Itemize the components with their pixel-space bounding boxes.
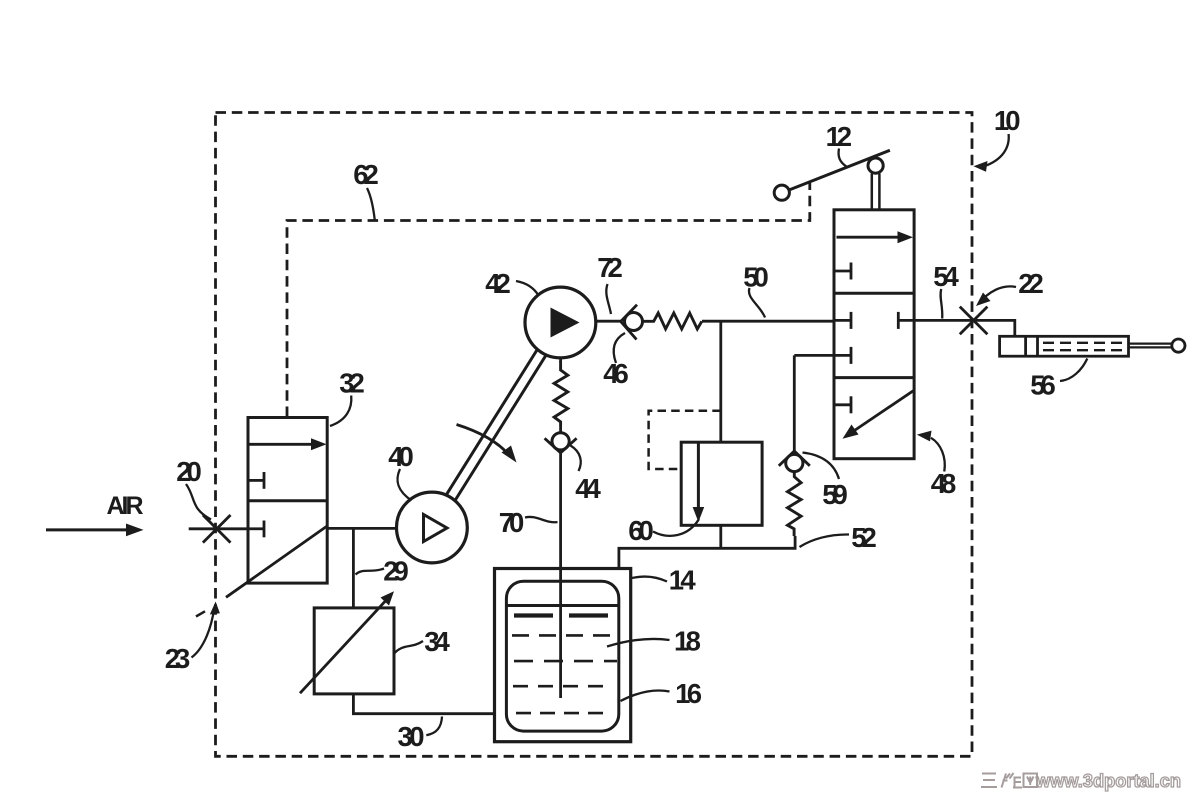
svg-text:4: 4: [680, 565, 696, 596]
leader squiggles: [186, 134, 1087, 735]
leader 30: [426, 717, 442, 736]
spring of 59: [788, 472, 802, 537]
pump 42: [525, 287, 596, 358]
wire: valve to X22 to cylinder drop: [914, 320, 1015, 336]
leader 12: [839, 149, 848, 168]
leader 18: [607, 639, 670, 647]
valve bottom section diagonal arrow: [843, 391, 914, 439]
valve body 50/54/48 (3-section spool valve): [834, 210, 914, 459]
svg-text:40: 40: [388, 441, 414, 472]
leader 60: [653, 519, 699, 536]
dashed pilot line 62: [287, 183, 810, 417]
leader 16: [621, 690, 670, 701]
watermark: [1035, 770, 1181, 791]
leader 70: [525, 517, 558, 522]
valve port stub mid-left main: [834, 312, 851, 329]
svg-text:62: 62: [353, 159, 379, 190]
svg-text:46: 46: [603, 358, 629, 389]
leader 20: [186, 484, 211, 520]
svg-text:52: 52: [851, 522, 877, 553]
spring 44 feed (vertical from pump): [554, 358, 568, 433]
dashed pilot to 60: [649, 411, 721, 469]
svg-text:8: 8: [686, 626, 701, 657]
leader 50: [749, 288, 765, 318]
wire: line 52: [619, 536, 795, 570]
restrictor box 34: [300, 591, 394, 694]
valve port stub bottom-left: [834, 396, 851, 413]
watermark CJK 三维网 (simplified strokes): [981, 773, 1037, 788]
cylinder 56: [1000, 336, 1185, 356]
svg-text:42: 42: [485, 268, 511, 299]
wire: branch 29 down to restrictor 34: [352, 528, 355, 608]
tank 14 outer: [495, 569, 631, 742]
reference numerals: [107, 105, 1056, 752]
leader 32: [330, 396, 351, 427]
leader 10: [984, 134, 1009, 166]
svg-text:2: 2: [837, 121, 852, 152]
leader 23: [192, 608, 215, 658]
leader 29: [356, 569, 385, 575]
leader 72: [606, 284, 611, 314]
svg-text:60: 60: [628, 515, 654, 546]
liquid dashes rows: [512, 635, 617, 713]
valve 32 port stub upper: [248, 472, 264, 489]
leader 62: [367, 188, 375, 220]
crossing symbol 22: [960, 307, 988, 335]
valve 32 diagonal (manual override 23): [226, 526, 327, 597]
svg-text:70: 70: [499, 507, 525, 538]
check valve 44: [545, 433, 577, 453]
svg-text:34: 34: [424, 626, 450, 657]
leader 52: [800, 534, 850, 547]
leader 48 arrowhead: [917, 431, 932, 442]
wire: junction down to regulator 60: [719, 321, 722, 442]
AIR inlet arrow: [46, 524, 144, 537]
svg-text:50: 50: [743, 262, 769, 293]
leader 44: [571, 446, 581, 472]
leader 59: [803, 453, 840, 480]
svg-text:22: 22: [1018, 268, 1044, 299]
leader 22: [979, 286, 1016, 303]
spring 72 (horizontal): [643, 313, 702, 329]
valve port stub top-left: [834, 263, 851, 280]
valve 32 body: [248, 418, 327, 584]
leader 40: [397, 469, 411, 501]
lever 12: [774, 150, 890, 210]
dash-dot tail 23: [196, 611, 205, 616]
check valve 46: [596, 305, 643, 340]
svg-text:6: 6: [687, 678, 702, 709]
wire: 34 down and right (line 30): [353, 694, 494, 714]
leader 42: [516, 281, 539, 296]
outer dashed enclosure 10: [216, 113, 973, 757]
leader 48: [931, 438, 945, 472]
svg-text:72: 72: [597, 252, 623, 283]
valve port stub mid-left lower: [834, 347, 851, 364]
tank inner vessel 16: [506, 581, 618, 731]
svg-text:44: 44: [575, 473, 601, 504]
leader 54: [941, 289, 943, 319]
wire: 60 down to line 52: [719, 525, 722, 548]
valve 32 port stub main: [248, 521, 264, 538]
regulator box 60: [681, 442, 762, 525]
leader 14: [632, 577, 667, 582]
svg-text:AIR: AIR: [107, 492, 144, 520]
leader 22 arrowhead: [976, 293, 991, 307]
crossing symbol 20: [203, 515, 231, 543]
leader 23 arrowhead: [210, 602, 220, 615]
wire: main line pump to valve: [702, 320, 834, 323]
valve 32 arrow: [250, 438, 327, 450]
motor 40: [397, 492, 468, 563]
svg-text:30: 30: [398, 721, 425, 752]
leader 10 arrowhead: [974, 161, 988, 172]
drive shaft 40-42: [446, 349, 547, 502]
wire: inlet to valve 32: [189, 527, 248, 530]
leader 46: [614, 333, 625, 363]
wire: dip tube 70: [559, 453, 562, 698]
svg-text:48: 48: [931, 468, 957, 499]
svg-text:20: 20: [176, 456, 202, 487]
svg-text:www.3dportal.cn: www.3dportal.cn: [1035, 770, 1181, 791]
svg-text:0: 0: [1005, 105, 1020, 136]
svg-text:29: 29: [383, 556, 409, 587]
leader 56: [1060, 359, 1087, 382]
liquid surface 18: [506, 604, 618, 607]
svg-text:56: 56: [1030, 370, 1056, 401]
valve top section arrow: [837, 231, 914, 243]
svg-text:23: 23: [165, 643, 191, 674]
check valve 59: [779, 355, 834, 471]
svg-text:54: 54: [933, 261, 959, 292]
leader 34: [395, 641, 423, 653]
wire: valve 32 to motor 40: [327, 527, 397, 530]
svg-text:59: 59: [822, 479, 848, 510]
liquid dashes row1: [514, 613, 608, 617]
valve port stub mid-right main: [898, 312, 914, 329]
rotation arrow: [457, 425, 517, 463]
svg-text:32: 32: [339, 368, 365, 399]
